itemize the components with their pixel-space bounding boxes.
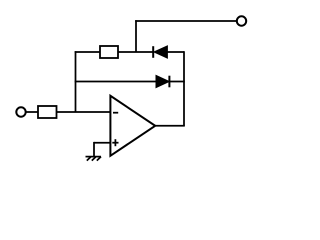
wire right vertical feedback — [183, 51, 185, 126]
wire second row to diode D2 — [75, 81, 156, 83]
wire R1 to op-amp inverting input — [57, 111, 111, 113]
resistor R1 — [38, 106, 57, 118]
diode D2 triangle — [156, 75, 169, 87]
diode D1 triangle — [154, 46, 167, 58]
resistor R2 — [100, 46, 118, 58]
op-amp U1 triangle — [110, 96, 155, 156]
wire noninverting input to ground — [94, 142, 110, 157]
output terminal — [237, 16, 246, 25]
wire tee up to output line — [135, 20, 137, 52]
wire left vertical feedback — [75, 51, 77, 112]
op-amp minus symbol — [113, 112, 118, 114]
op-amp plus symbol — [112, 139, 118, 146]
wire top row left — [75, 51, 100, 53]
wire op-amp output to right vertical — [155, 125, 185, 127]
wire D1 to right vertical — [167, 51, 184, 53]
ground — [86, 157, 102, 161]
input terminal — [16, 107, 25, 116]
diode D1 cathode bar — [152, 46, 154, 58]
wire top output — [135, 20, 237, 22]
wire R2 to diode D1 — [118, 51, 153, 53]
wire input terminal to R1 — [26, 111, 38, 113]
wire D2 to right vertical — [169, 81, 184, 83]
diode D2 cathode bar — [168, 76, 170, 88]
